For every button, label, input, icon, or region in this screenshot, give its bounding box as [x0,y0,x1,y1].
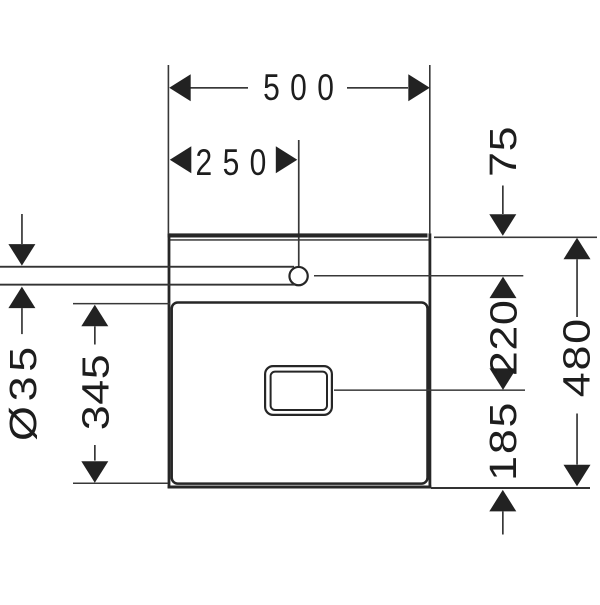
svg-text:250: 250 [195,142,276,184]
drain center line to right [334,389,525,391]
extension line left (shared by dims 500 and 250) [168,65,170,233]
extension line right of dim 250 (down to faucet hole) [298,140,300,266]
dimension D35 bottom arrow (up) [8,287,35,309]
dimension 345 top arrow (up) [81,305,108,327]
drain outer rounded rect [265,366,332,415]
dimension 345 bottom extension line [73,483,168,485]
dimension D35 lower line [21,308,23,334]
dimension 345 bottom arrow (down) [81,461,108,483]
svg-text:480: 480 [555,317,598,397]
dimension 480 lower line [576,414,578,465]
dimension 500 line right segment [347,87,408,89]
faucet hole circle [289,267,307,285]
svg-text:75: 75 [481,126,524,177]
dimension 185 tail line [502,511,504,534]
svg-text:220: 220 [482,300,525,377]
basin deck inner line (thin) [169,239,430,241]
drain inner rounded rect [271,372,327,410]
dimension 250 left arrow [170,146,192,173]
dimension 480 upper line [576,259,578,317]
basin right edge [429,233,432,488]
dimension 185 bottom arrow (up, below basin bottom line) [489,490,516,512]
dimension 220 top arrow (up) [490,277,517,299]
dimension D35 top arrow (down) [8,244,35,266]
svg-text:345: 345 [74,354,117,431]
basin bottom edge [168,486,432,489]
dimension 75 line [502,186,504,215]
dimension 480 top arrow (up) [564,238,591,260]
bowl outline (rounded rect) [172,302,428,483]
dimension 480 bottom arrow (down) [564,465,591,487]
extension line right (dim 500, merges into basin right edge) [429,65,431,233]
basin bottom extension line to right [431,487,590,489]
dimension 500 right arrow [408,74,430,101]
svg-text:500: 500 [263,67,344,109]
faucet hole bottom tangent line [0,284,295,286]
dimension 345 top extension line [73,303,170,305]
dimension 220 bottom arrow (down) [490,368,517,390]
svg-text:185: 185 [481,401,524,481]
svg-text:Ø35: Ø35 [1,342,44,441]
basin top extension line to right [434,237,597,239]
dimension 345 upper line [94,326,96,344]
faucet center line to right [314,275,523,277]
dimension D35 upper line [21,214,23,244]
basin top edge (thick) [168,233,428,237]
dimension 345 lower line [94,445,96,461]
dimension 500 left arrow [169,74,191,101]
dimension 75 arrow (down) [489,214,516,236]
basin left edge [168,233,171,488]
dimension 500 line left segment [190,87,248,89]
dimension 250 right arrow [276,146,298,173]
faucet hole top tangent line [0,266,294,268]
